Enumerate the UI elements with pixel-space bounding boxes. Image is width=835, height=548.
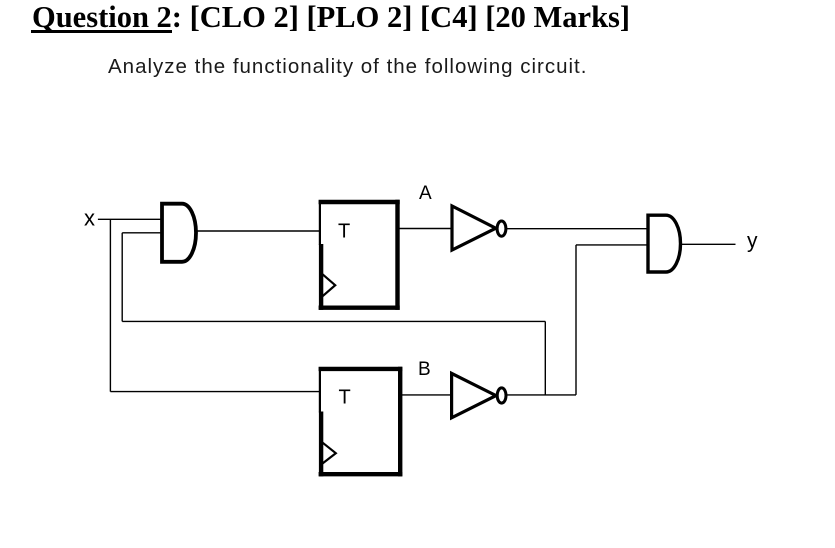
flip-flop FF2 box left edge thick lower segment xyxy=(319,412,323,477)
wire vertical riser from B' up to AND gate U4 xyxy=(575,245,577,395)
wire flip-flop FF2 output to inverter U3 (node B) xyxy=(400,394,452,396)
flip-flop FF2 box left edge thin upper segment xyxy=(319,367,321,412)
wire vertical branch of x down to lower flip-flop xyxy=(109,219,111,391)
flip-flop FF1 box left edge thick lower segment xyxy=(319,244,323,310)
inverter U3 triangle xyxy=(452,373,496,417)
flip-flop FF1 box right edge xyxy=(395,200,399,310)
wire flip-flop FF1 output to inverter U2 (node A) xyxy=(398,228,453,230)
inverter U3 bubble xyxy=(497,388,506,403)
wire horizontal into AND gate U4 bottom input xyxy=(576,244,647,246)
wire from input x to AND gate U1 top input xyxy=(98,218,161,220)
flip-flop FF1 box left edge thin upper segment xyxy=(319,201,321,246)
svg-text:T: T xyxy=(338,220,350,242)
svg-text:T: T xyxy=(339,386,351,408)
flip-flop FF2 box right edge xyxy=(398,367,402,477)
wire AND gate U1 lower input feedback horizontal xyxy=(122,232,160,234)
wire feedback vertical drop to node B' xyxy=(544,321,546,395)
flip-flop FF2 box top edge xyxy=(319,367,403,371)
inverter U2 triangle xyxy=(452,206,496,250)
AND gate U4 xyxy=(648,215,681,272)
flip-flop FF1 box top edge xyxy=(319,200,400,204)
svg-text:B: B xyxy=(418,359,431,380)
heading underline xyxy=(31,30,172,33)
flip-flop FF2 box bottom edge xyxy=(319,472,403,476)
inverter U2 bubble xyxy=(497,221,506,236)
wire inverter U2 output to AND gate U4 top input xyxy=(507,228,647,230)
wire horizontal from x branch to flip-flop FF2 T input xyxy=(110,391,321,393)
heading text xyxy=(32,0,630,35)
wire AND gate U1 output to flip-flop FF1 T input xyxy=(196,230,321,232)
instruction text xyxy=(108,55,587,79)
svg-text:x: x xyxy=(84,205,95,230)
svg-text:A: A xyxy=(419,183,432,204)
flip-flop FF1 box bottom edge xyxy=(319,306,400,310)
wire AND gate U4 output to label y xyxy=(681,243,736,245)
svg-text:y: y xyxy=(747,230,758,253)
wire feedback vertical at x=122 xyxy=(121,233,123,322)
AND gate U1 xyxy=(162,204,196,262)
wire feedback long horizontal at y=321 xyxy=(122,320,545,322)
flip-flop FF2 clock triangle xyxy=(322,442,336,464)
flip-flop FF1 clock triangle xyxy=(322,274,335,297)
wire inverter U3 output to vertical riser xyxy=(507,394,576,396)
